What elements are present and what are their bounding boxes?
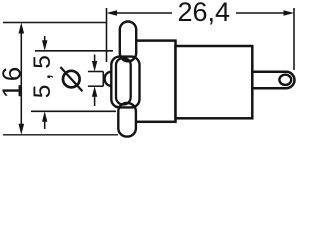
capsule bottom [118, 103, 136, 137]
lens diameter arrows outside [94, 55, 96, 62]
dimension 16 bottom extension line [3, 134, 118, 136]
lens diameter top extension line [88, 71, 103, 73]
dimension 26,4 line left segment [111, 12, 172, 14]
dimension 16 line [20, 28, 22, 129]
barrel mid rectangle [130, 41, 176, 122]
bezel capsule top [120, 22, 136, 62]
lens tip connector line [102, 72, 104, 87]
lens dome [105, 72, 111, 86]
dimension 26,4 right extension line [293, 8, 295, 70]
svg-text:26,4: 26,4 [178, 0, 231, 27]
dimension 5,5 arrows outside [44, 36, 46, 42]
svg-text:16: 16 [0, 64, 26, 98]
dimension 26,4 line right segment [236, 12, 290, 14]
lens diameter bottom extension line [88, 85, 103, 87]
dimension 26,4 left extension line [106, 8, 108, 62]
body rectangle [176, 46, 253, 118]
label diameter symbol drawn [60, 67, 82, 91]
svg-text:5,5: 5,5 [29, 51, 56, 99]
dimension 16 arrowheads [19, 23, 25, 135]
inner lens barrel capsule [116, 58, 131, 105]
terminal hole [279, 75, 291, 85]
capsule middle wide [111, 57, 139, 108]
dimension 5,5 bottom extension line [31, 110, 116, 112]
capsule white fills [111, 22, 139, 137]
terminal tab [252, 72, 294, 88]
dimension 16 top extension line [3, 22, 107, 24]
dimension 5,5 top extension line [35, 50, 113, 52]
dimension 26,4 arrowheads [107, 10, 295, 16]
